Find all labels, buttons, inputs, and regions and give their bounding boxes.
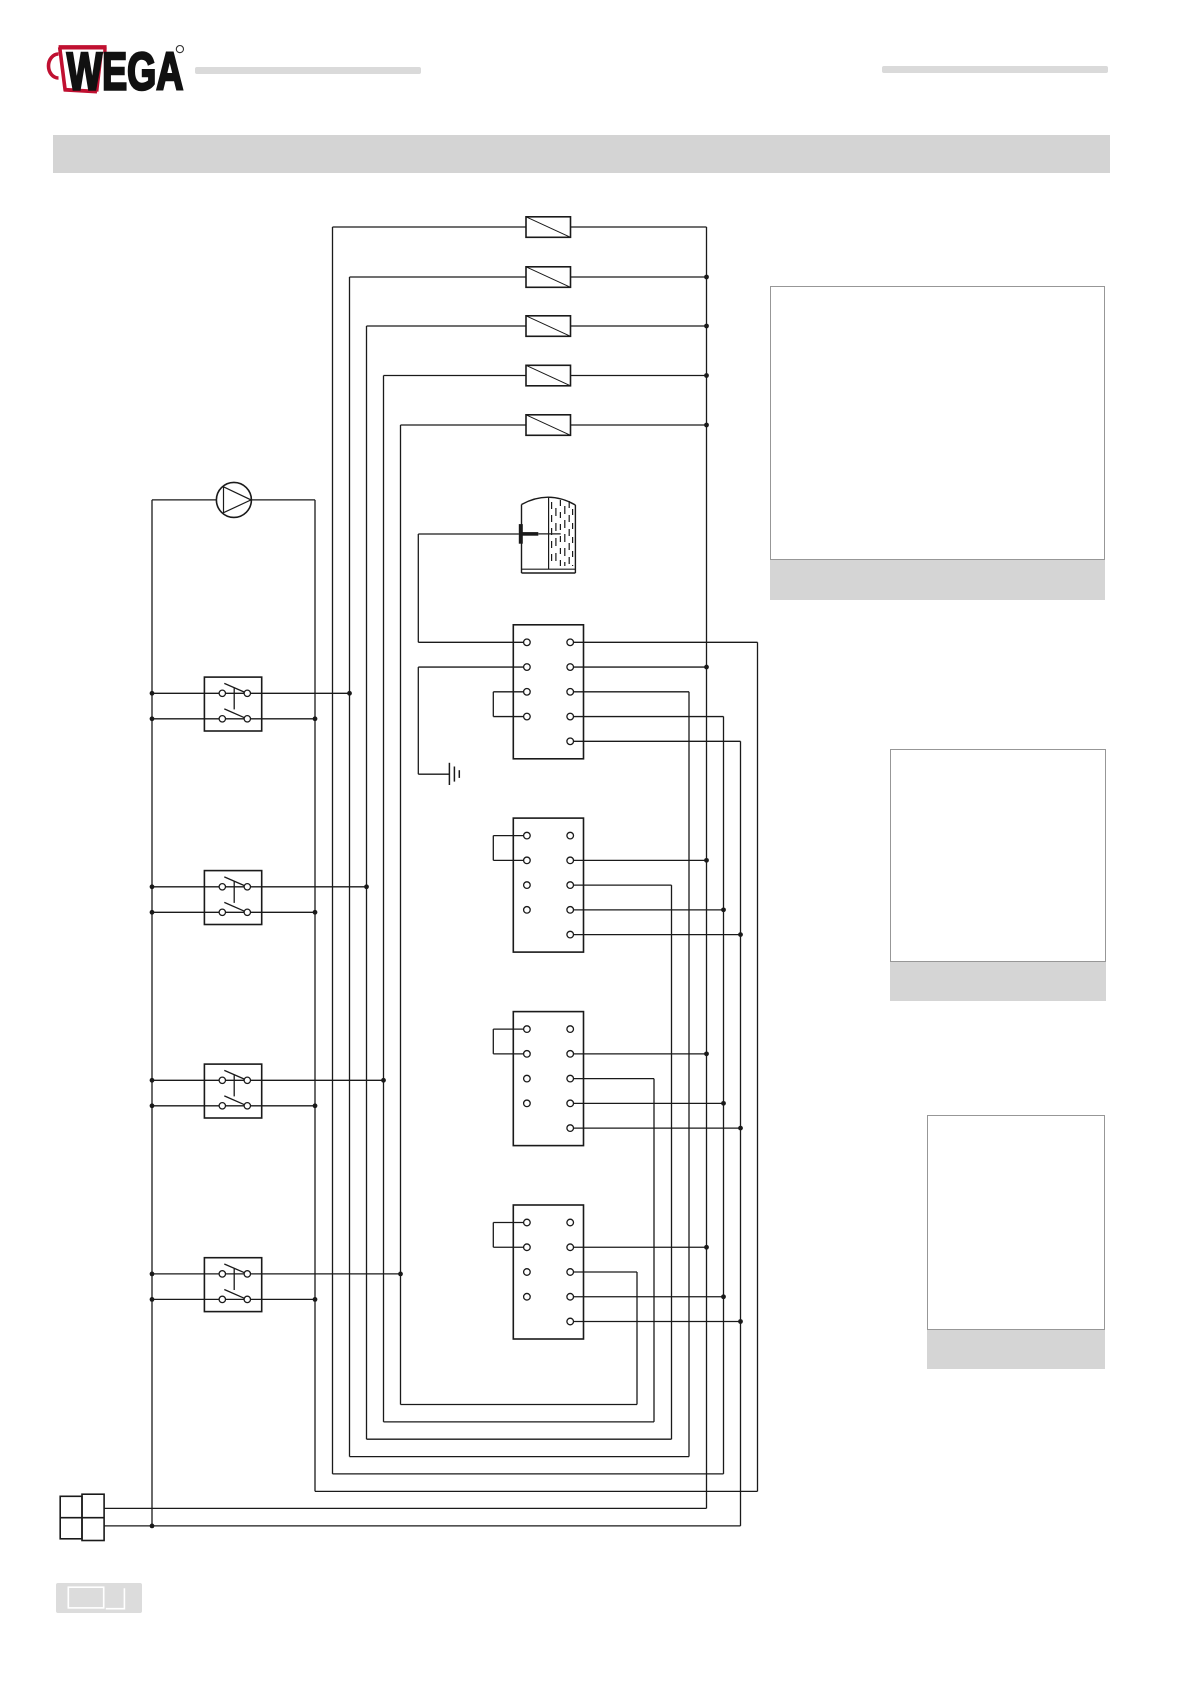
svg-text:WEGA: WEGA: [67, 42, 184, 101]
